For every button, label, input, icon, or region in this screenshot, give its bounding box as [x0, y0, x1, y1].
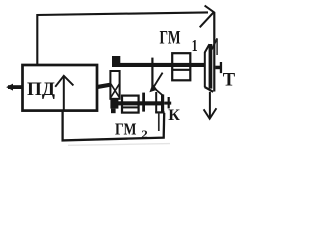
wheel Т left face — [204, 52, 206, 87]
wheel К bottom — [155, 111, 164, 113]
wheel К rim — [161, 94, 164, 112]
clutch box with X — [110, 71, 119, 99]
svg-text:ГМ: ГМ — [115, 120, 137, 139]
upper shaft to ГМ1 and wheel Т — [119, 63, 206, 67]
coupling ГМ1 box — [172, 53, 190, 80]
motor ПД box — [23, 65, 98, 111]
wheel Т outer rim slant — [212, 38, 217, 49]
svg-text:ГМ: ГМ — [160, 28, 181, 48]
wheel К left face — [155, 92, 157, 113]
bearing tick right of wheel Т — [220, 62, 222, 73]
lower shaft to ГМ2 and wheel К — [118, 101, 162, 105]
branch vertical from upper shaft to К — [151, 58, 153, 87]
svg-text:К: К — [168, 107, 180, 124]
motion arrow down below wheel Т — [209, 92, 211, 118]
frame stub below bearing — [111, 109, 116, 114]
wheel Т bottom slant — [205, 87, 214, 92]
arrowhead at top right pointing right — [200, 6, 214, 28]
svg-text:Т: Т — [223, 70, 236, 90]
wire: bottom feedback loop — [63, 111, 165, 141]
bearing tick right of wheel К — [168, 97, 170, 108]
svg-text:ПД: ПД — [27, 79, 55, 100]
coupling ГМ2 inner line — [123, 106, 138, 108]
coupling ГМ1 inner line — [173, 69, 190, 71]
wheel К axle stub right — [164, 102, 171, 105]
adjust arrow diagonal pointing down-left — [153, 73, 162, 88]
bearing block bottom — [110, 98, 118, 109]
rail vertical line at right — [213, 12, 215, 91]
wheel Т rim — [209, 44, 213, 89]
link from arrow vertex to wheel К — [154, 88, 163, 96]
axis line below wheel К — [158, 113, 160, 131]
faint scan shadow line — [68, 144, 170, 146]
input shaft stub left with end tip — [8, 85, 23, 89]
svg-text:1: 1 — [192, 36, 198, 55]
wheel Т top slant — [205, 44, 210, 52]
wheel Т outer face — [216, 38, 218, 55]
shaft: motor to distribution box — [97, 83, 111, 90]
coupling ГМ2 box — [122, 96, 139, 113]
bearing block top — [112, 56, 120, 67]
wheel Т axle stub right — [215, 66, 222, 70]
control arrow inside ПД pointing up — [63, 76, 65, 111]
bearing tick on lower shaft — [142, 93, 145, 112]
wire: top feedback line from motor to rail — [37, 12, 208, 65]
